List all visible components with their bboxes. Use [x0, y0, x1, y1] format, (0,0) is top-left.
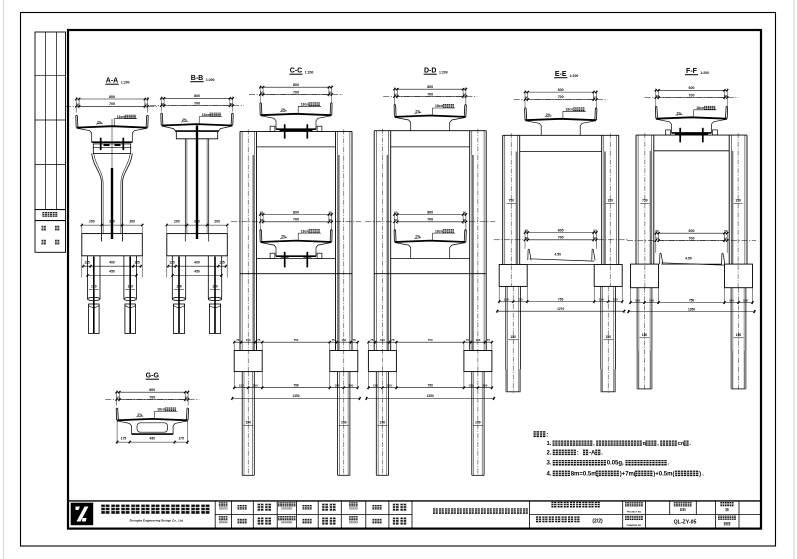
svg-text:700: 700: [558, 236, 564, 240]
svg-text:175: 175: [178, 437, 184, 441]
svg-text:0.05g,: 0.05g,: [607, 461, 624, 467]
svg-text:150: 150: [245, 421, 251, 425]
svg-text:700: 700: [689, 93, 695, 97]
svg-text:125: 125: [134, 260, 140, 264]
svg-text:700: 700: [427, 218, 433, 222]
svg-text:50: 50: [463, 211, 467, 215]
svg-text:150: 150: [475, 338, 480, 342]
svg-text:150: 150: [482, 384, 487, 388]
svg-text:50: 50: [593, 229, 597, 233]
svg-text:750: 750: [428, 384, 434, 388]
svg-text:50: 50: [463, 93, 467, 97]
svg-text:50: 50: [185, 396, 189, 400]
svg-text:150: 150: [605, 335, 611, 339]
svg-text:50: 50: [230, 102, 234, 106]
svg-text:700: 700: [427, 92, 433, 96]
svg-text:1:200: 1:200: [439, 71, 448, 75]
svg-text:600: 600: [558, 228, 564, 232]
svg-text:200: 200: [174, 220, 180, 224]
svg-text:75: 75: [353, 338, 357, 342]
svg-text:18cm: 18cm: [435, 229, 444, 233]
svg-text:A-A: A-A: [106, 78, 118, 85]
svg-text:750: 750: [293, 384, 299, 388]
svg-text:150: 150: [475, 421, 481, 425]
svg-text:200: 200: [194, 220, 200, 224]
svg-text:1:200: 1:200: [305, 71, 314, 75]
svg-text:175: 175: [121, 437, 127, 441]
svg-text:18cm: 18cm: [566, 108, 575, 112]
svg-text:50: 50: [724, 237, 728, 241]
svg-text:150: 150: [735, 199, 741, 203]
svg-text:50: 50: [260, 211, 264, 215]
svg-text:150: 150: [246, 338, 251, 342]
svg-text:50: 50: [329, 211, 333, 215]
svg-text:50: 50: [394, 218, 398, 222]
svg-text:50: 50: [116, 396, 120, 400]
svg-text:200: 200: [129, 220, 135, 224]
svg-text:100: 100: [212, 285, 218, 289]
svg-text:150: 150: [387, 384, 392, 388]
svg-text:700: 700: [149, 395, 155, 399]
svg-text:DRAWING NO.: DRAWING NO.: [627, 524, 642, 527]
svg-text:50: 50: [394, 211, 398, 215]
svg-text:4.50: 4.50: [685, 257, 692, 261]
svg-text:100: 100: [91, 285, 97, 289]
svg-text:F-F: F-F: [686, 68, 698, 75]
svg-text:50: 50: [724, 229, 728, 233]
svg-text:50: 50: [394, 93, 398, 97]
svg-text:150: 150: [348, 384, 353, 388]
svg-text:1.: 1.: [547, 441, 552, 447]
svg-text:750: 750: [508, 199, 514, 203]
svg-text:150: 150: [642, 333, 648, 337]
svg-text:50: 50: [593, 96, 597, 100]
svg-text:50: 50: [260, 218, 264, 222]
svg-text::: :: [577, 450, 579, 456]
svg-text:750: 750: [294, 338, 299, 342]
svg-text:75: 75: [332, 338, 336, 342]
svg-text:700: 700: [293, 90, 299, 94]
svg-text:150: 150: [468, 384, 473, 388]
svg-text:150: 150: [341, 421, 347, 425]
svg-text:125: 125: [84, 260, 90, 264]
svg-text:4.50: 4.50: [554, 253, 561, 257]
svg-text:50: 50: [525, 96, 529, 100]
svg-text:50: 50: [724, 94, 728, 98]
svg-text:1350: 1350: [688, 307, 695, 311]
svg-text:750: 750: [428, 338, 433, 342]
svg-text:150: 150: [373, 384, 378, 388]
svg-text:Zhonghe Engineering Design Co.: Zhonghe Engineering Design Co., Ltd: [129, 518, 183, 522]
svg-text:800: 800: [293, 83, 299, 87]
svg-text::: :: [546, 433, 548, 439]
svg-text:1:200: 1:200: [700, 71, 709, 75]
svg-text:1:200: 1:200: [206, 78, 215, 82]
svg-text:18cm: 18cm: [202, 113, 211, 117]
svg-text:50: 50: [656, 229, 660, 233]
svg-text:-A: -A: [589, 450, 596, 456]
svg-text:1350: 1350: [292, 394, 299, 398]
svg-text:700: 700: [109, 102, 115, 106]
svg-text:50: 50: [329, 218, 333, 222]
svg-text:3.: 3.: [547, 461, 552, 467]
svg-text:QL-ZY-05: QL-ZY-05: [674, 520, 697, 526]
svg-text:450: 450: [150, 437, 156, 441]
svg-text:700: 700: [689, 236, 695, 240]
svg-text:200: 200: [89, 220, 95, 224]
svg-text:(2/2): (2/2): [592, 519, 603, 525]
svg-text:18cm: 18cm: [301, 103, 310, 107]
svg-text:2.: 2.: [547, 450, 552, 456]
svg-text:600: 600: [689, 229, 695, 233]
svg-text:4.: 4.: [547, 471, 552, 477]
svg-text:50: 50: [161, 102, 165, 106]
svg-text:D-D: D-D: [424, 68, 436, 75]
svg-text:50: 50: [463, 218, 467, 222]
svg-text:18cm: 18cm: [696, 106, 705, 110]
svg-text:50: 50: [525, 236, 529, 240]
svg-text:): ): [699, 471, 701, 477]
svg-text:50: 50: [329, 91, 333, 95]
svg-text:50: 50: [593, 236, 597, 240]
svg-text:)+7m(: )+7m(: [620, 471, 636, 477]
svg-text:150: 150: [504, 297, 509, 301]
svg-text:450: 450: [109, 270, 115, 274]
svg-text:200: 200: [214, 220, 220, 224]
svg-text:750: 750: [558, 297, 564, 301]
svg-text:18cm: 18cm: [301, 229, 310, 233]
svg-text:800: 800: [109, 95, 115, 99]
svg-text:50: 50: [76, 103, 80, 107]
svg-text:8m=0.5m(: 8m=0.5m(: [571, 471, 599, 477]
svg-text:1270: 1270: [557, 307, 564, 311]
svg-text:150: 150: [607, 199, 613, 203]
svg-text:18cm: 18cm: [157, 408, 166, 412]
svg-text:C-C: C-C: [290, 68, 302, 75]
svg-text:150: 150: [599, 297, 604, 301]
svg-text:800: 800: [149, 388, 155, 392]
svg-text:150: 150: [334, 384, 339, 388]
svg-text:18cm: 18cm: [435, 104, 444, 108]
svg-text:75: 75: [391, 338, 395, 342]
svg-text:700: 700: [558, 95, 564, 99]
svg-text:1350: 1350: [427, 394, 434, 398]
svg-text:)+0.5m(: )+0.5m(: [653, 471, 674, 477]
svg-text:150: 150: [380, 338, 385, 342]
svg-text:50: 50: [656, 237, 660, 241]
svg-text:18cm: 18cm: [117, 115, 126, 119]
svg-text:750: 750: [689, 298, 695, 302]
svg-text:150: 150: [635, 298, 640, 302]
svg-text:B-B: B-B: [191, 75, 203, 82]
svg-text:75: 75: [257, 338, 261, 342]
svg-text:75: 75: [236, 338, 240, 342]
svg-text:50: 50: [525, 229, 529, 233]
svg-text:75: 75: [487, 338, 491, 342]
svg-text:150: 150: [729, 298, 734, 302]
svg-text:200: 200: [109, 220, 115, 224]
svg-text:150: 150: [253, 384, 258, 388]
svg-text:150: 150: [736, 333, 742, 337]
svg-text:800: 800: [427, 210, 433, 214]
svg-text:400: 400: [109, 260, 115, 264]
svg-text:800: 800: [293, 210, 299, 214]
svg-text:600: 600: [558, 88, 564, 92]
svg-text:75: 75: [370, 338, 374, 342]
svg-text:PROJECT NO.: PROJECT NO.: [627, 511, 642, 513]
svg-text:100: 100: [127, 285, 133, 289]
svg-text:G-G: G-G: [146, 373, 160, 380]
svg-text:150: 150: [341, 338, 346, 342]
svg-text:400: 400: [194, 260, 200, 264]
svg-text:1:200: 1:200: [121, 81, 130, 85]
svg-text:1:200: 1:200: [570, 74, 579, 78]
svg-text:150: 150: [239, 384, 244, 388]
svg-text:700: 700: [194, 101, 200, 105]
svg-text:50: 50: [656, 94, 660, 98]
svg-text:600: 600: [689, 86, 695, 90]
svg-text:50: 50: [260, 91, 264, 95]
svg-text:450: 450: [194, 270, 200, 274]
svg-text:800: 800: [427, 85, 433, 89]
svg-text:750: 750: [642, 199, 648, 203]
svg-text:75: 75: [466, 338, 470, 342]
svg-text:150: 150: [380, 421, 386, 425]
svg-text:800: 800: [194, 94, 200, 98]
svg-text:150: 150: [510, 335, 516, 339]
svg-text:100: 100: [176, 285, 182, 289]
svg-text:700: 700: [293, 218, 299, 222]
svg-text:50: 50: [145, 103, 149, 107]
svg-text:E-E: E-E: [555, 71, 567, 78]
